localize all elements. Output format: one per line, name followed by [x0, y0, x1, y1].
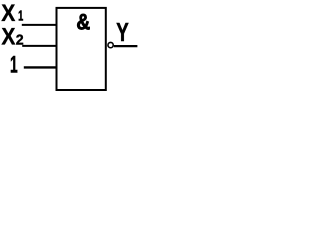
- svg-text:2: 2: [16, 32, 24, 48]
- wire: input X2 to pin 2: [22, 45, 57, 47]
- svg-text:Y: Y: [116, 17, 128, 47]
- svg-text:1: 1: [18, 7, 23, 24]
- wire: constant 1 to pin 3: [24, 66, 58, 68]
- svg-text:X: X: [1, 23, 15, 50]
- wire: input X1 to pin 1: [22, 24, 58, 26]
- svg-text:&: &: [76, 10, 90, 35]
- svg-text:1: 1: [10, 52, 18, 79]
- inversion bubble on output: [108, 42, 113, 47]
- wire: output Y: [114, 45, 137, 47]
- AND gate U1 body (IEC rectangle): [57, 8, 106, 90]
